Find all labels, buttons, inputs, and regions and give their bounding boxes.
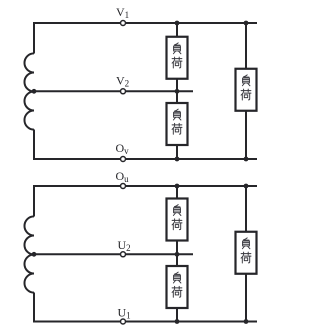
node U2 terminal bbox=[121, 252, 126, 257]
wire: circuit1 right column upper bbox=[245, 23, 247, 70]
junction: circuit2 bottom line / right column bbox=[244, 319, 249, 324]
wire: circuit2 middle column stub mid bbox=[176, 240, 178, 267]
wire: circuit2 top line Ou bbox=[33, 185, 257, 187]
node V1 terminal bbox=[121, 21, 126, 26]
wire: circuit2 middle column stub top bbox=[176, 186, 178, 200]
wire: circuit2 right column lower bbox=[245, 273, 247, 322]
wire: circuit2 middle line U2 bbox=[33, 253, 193, 255]
junction: circuit2 top line / right column bbox=[244, 184, 249, 189]
load U1c 負荷 circuit1 right bbox=[236, 69, 257, 111]
junction: circuit1 top line / middle column bbox=[175, 21, 180, 26]
junction: circuit2 winding center tap bbox=[32, 252, 37, 257]
junction: circuit1 winding center tap bbox=[32, 89, 37, 94]
wire: circuit2 middle column stub bottom bbox=[176, 308, 178, 322]
junction: circuit1 bottom line / middle column bbox=[175, 157, 180, 162]
junction: circuit1 bottom line / right column bbox=[244, 157, 249, 162]
junction: circuit2 top line / middle column bbox=[175, 184, 180, 189]
load U1b 負荷 circuit1 lower bbox=[167, 103, 188, 145]
load U2c 負荷 circuit2 right bbox=[236, 232, 257, 274]
node V2 terminal bbox=[121, 89, 126, 94]
wire: circuit2 left rail lower segment bbox=[33, 293, 35, 323]
load U2a 負荷 circuit2 upper bbox=[167, 199, 188, 241]
wire: circuit1 middle line V2 bbox=[33, 90, 193, 92]
junction: circuit1 middle line / middle column bbox=[175, 89, 180, 94]
wire: circuit2 right column upper bbox=[245, 186, 247, 233]
junction: circuit1 top line / right column bbox=[244, 21, 249, 26]
junction: circuit2 middle line / middle column bbox=[175, 252, 180, 257]
wire: circuit1 middle column stub bottom bbox=[176, 145, 178, 159]
wire: circuit1 middle column stub top bbox=[176, 23, 178, 37]
node U1 terminal bbox=[121, 319, 126, 324]
inductor: circuit1 transformer winding bbox=[24, 53, 34, 129]
node Ou terminal bbox=[121, 184, 126, 189]
wire: circuit1 right column lower bbox=[245, 110, 247, 159]
wire: circuit1 middle column stub mid bbox=[176, 78, 178, 103]
wire: circuit2 left rail upper segment bbox=[33, 185, 35, 217]
wire: circuit1 bottom line Ov bbox=[33, 158, 257, 160]
load U2b 負荷 circuit2 lower bbox=[167, 266, 188, 308]
inductor: circuit2 transformer winding bbox=[24, 216, 34, 292]
node Ov terminal bbox=[121, 157, 126, 162]
wire: circuit2 bottom line U1 bbox=[33, 321, 257, 323]
load U1a 負荷 circuit1 upper bbox=[167, 37, 188, 79]
wire: circuit1 top line V1 bbox=[33, 22, 257, 24]
junction: circuit2 bottom line / middle column bbox=[175, 319, 180, 324]
wire: circuit1 left rail upper segment bbox=[33, 22, 35, 54]
wire: circuit1 left rail lower segment bbox=[33, 130, 35, 161]
